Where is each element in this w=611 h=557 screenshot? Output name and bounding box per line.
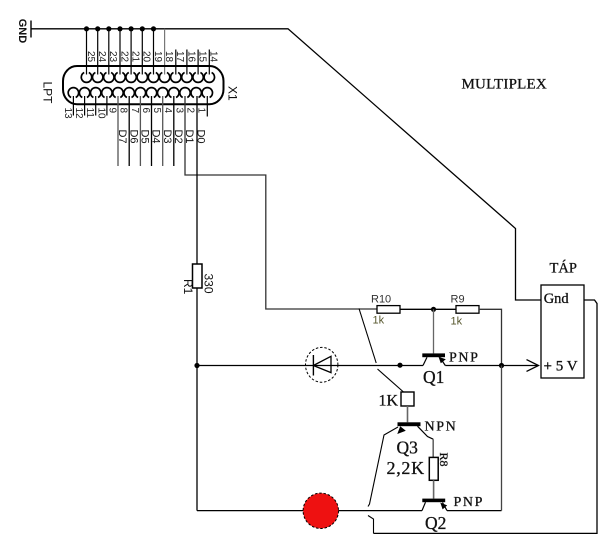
pin cup 3 [180, 88, 190, 98]
resistor R8 [429, 457, 438, 480]
wire red LED row left [197, 510, 422, 512]
svg-text:21: 21 [130, 51, 141, 63]
svg-text:20: 20 [141, 51, 152, 63]
connector X1 body (DB25 LPT) [63, 66, 224, 104]
Q3 emitter wire upper [368, 427, 398, 507]
svg-text:D7: D7 [116, 130, 128, 144]
pin cup 12 [79, 88, 89, 98]
pin cup 9 [113, 88, 123, 98]
Q2 emitter arrow [440, 503, 447, 510]
power supply TAP box [541, 285, 584, 378]
resistor R1 [193, 264, 203, 288]
svg-text:2: 2 [185, 108, 196, 114]
wire pin 22 to GND bus [119, 29, 121, 75]
svg-text:1k: 1k [451, 316, 463, 328]
svg-text:R9: R9 [451, 294, 465, 306]
svg-text:14: 14 [208, 51, 219, 63]
junction dot left of LED [194, 363, 199, 368]
svg-text:R10: R10 [371, 294, 391, 306]
svg-text:3: 3 [173, 108, 184, 114]
wire R1 to bottom left [196, 288, 198, 511]
svg-text:12: 12 [73, 108, 84, 120]
wire pin 24 to GND bus [97, 29, 99, 75]
pin cup 7 [135, 88, 145, 98]
svg-text:GND: GND [16, 19, 28, 44]
Q1 collector [423, 357, 427, 365]
svg-text:PNP: PNP [454, 495, 484, 510]
Q1 emitter arrow [439, 357, 446, 363]
svg-text:X1: X1 [226, 86, 240, 101]
wire Q3 collector to R8 [432, 439, 434, 457]
wire pin 25 to GND bus [86, 29, 88, 75]
pin 13 stub [72, 96, 74, 116]
svg-text:R1: R1 [181, 279, 195, 295]
pin 16 stub [186, 50, 188, 75]
svg-text:17: 17 [174, 51, 185, 63]
resistor R10 [377, 306, 400, 314]
pin cup 14 [204, 73, 214, 83]
wire +5V rail to Q2 emitter [501, 366, 503, 511]
svg-text:D2: D2 [172, 130, 184, 144]
svg-text:9: 9 [106, 108, 117, 114]
resistor R9 [456, 306, 479, 314]
wire D5 (pin 7) [139, 96, 141, 166]
wire D1 pin3 to R10 [185, 96, 377, 309]
pin 10 stub [106, 96, 108, 116]
junction dot +5V rail [499, 363, 504, 368]
pin cup 6 [146, 88, 156, 98]
svg-text:LPT: LPT [41, 82, 55, 105]
junction dot right of LED [397, 363, 402, 368]
svg-text:23: 23 [107, 51, 118, 63]
wire pin 21 to GND bus [130, 29, 132, 75]
svg-text:PNP: PNP [449, 351, 479, 366]
wire D7 (pin 9) [117, 96, 119, 166]
pin cup 1 [202, 88, 212, 98]
wire D1 net to 1K (upper) [359, 309, 376, 364]
wire D3 (pin 5) [162, 96, 164, 166]
Q2 collector [422, 502, 426, 510]
svg-text:330: 330 [202, 274, 216, 294]
junction dot pin 20 [140, 26, 145, 31]
wire D0 pin2 to R1 [196, 96, 198, 264]
junction dot pin 19 [151, 26, 156, 31]
svg-text:Q2: Q2 [425, 513, 446, 533]
svg-text:19: 19 [152, 51, 163, 63]
pin cup 18 [159, 73, 169, 83]
wire pin 19 to GND bus [153, 29, 155, 75]
wire 1K to Q3 base [407, 406, 409, 422]
pin cup 24 [93, 73, 103, 83]
pin 11 stub [95, 96, 97, 116]
svg-text:R8: R8 [437, 453, 451, 467]
pin cup 17 [171, 73, 181, 83]
svg-text:11: 11 [84, 108, 95, 119]
svg-text:8: 8 [118, 108, 129, 114]
pin 15 stub [197, 50, 199, 75]
pin cup 13 [68, 88, 78, 98]
pin cup 15 [193, 73, 203, 83]
wire Q1 base [433, 309, 435, 353]
Q1 emitter [440, 358, 445, 366]
svg-text:5: 5 [151, 108, 162, 114]
wire LED row [197, 365, 423, 367]
Q3 collector [418, 426, 434, 439]
svg-text:Q3: Q3 [397, 438, 419, 458]
Q3 emitter wire lower (to bottom bus) [368, 516, 374, 534]
pin cup 19 [148, 73, 158, 83]
svg-text:22: 22 [118, 51, 129, 63]
wire R9 to +5V rail [479, 309, 502, 365]
pin cup 2 [191, 88, 201, 98]
diode D (circle) [306, 347, 338, 382]
svg-text:2,2K: 2,2K [387, 458, 425, 478]
svg-text:6: 6 [140, 108, 151, 114]
svg-text:+ 5 V: + 5 V [544, 358, 578, 374]
transistor Q3 bar [398, 422, 421, 426]
svg-text:Q1: Q1 [423, 367, 444, 387]
wire D4 (pin 6) [151, 96, 153, 166]
svg-text:13: 13 [62, 108, 73, 120]
svg-text:D3: D3 [161, 130, 173, 144]
junction dot pin 22 [117, 26, 122, 31]
svg-text:NPN: NPN [425, 420, 458, 435]
wire R10 to R9 [400, 308, 456, 310]
svg-text:D5: D5 [139, 130, 151, 144]
pin cup 16 [182, 73, 192, 83]
wire D6 (pin 8) [128, 96, 130, 166]
pin 17 stub [175, 50, 177, 75]
diode triangle [313, 356, 331, 372]
svg-text:D6: D6 [127, 130, 139, 144]
pin cup 23 [104, 73, 114, 83]
svg-text:MULTIPLEX: MULTIPLEX [462, 77, 547, 93]
svg-text:18: 18 [163, 51, 174, 63]
svg-text:TÁP: TÁP [550, 260, 577, 277]
wire TAP Gnd to bottom bus [374, 300, 598, 533]
Q2 emitter [443, 503, 448, 511]
svg-text:1K: 1K [379, 392, 399, 409]
svg-text:D4: D4 [150, 130, 162, 144]
junction dot base Q1 [431, 307, 436, 312]
wire pin 20 to GND bus [141, 29, 143, 75]
wire pin 18 to GND bus [164, 29, 166, 75]
svg-text:24: 24 [96, 51, 107, 63]
Q3 emitter arrow [397, 426, 406, 434]
pin 1 stub [206, 96, 208, 117]
svg-text:15: 15 [197, 51, 208, 63]
transistor Q1 bar [422, 353, 445, 357]
junction dot pin 25 [84, 26, 89, 31]
pin cup 25 [81, 73, 91, 83]
wire pin 23 to GND bus [108, 29, 110, 75]
pin 14 stub [208, 50, 210, 75]
svg-text:7: 7 [129, 108, 140, 114]
pin cup 10 [102, 88, 112, 98]
pin cup 22 [115, 73, 125, 83]
svg-text:25: 25 [85, 51, 96, 63]
wire Q1 emitter to +5V [445, 365, 537, 367]
svg-text:10: 10 [95, 108, 106, 120]
svg-text:4: 4 [162, 108, 173, 114]
svg-text:Gnd: Gnd [544, 291, 570, 307]
pin cup 20 [137, 73, 147, 83]
wire R8 to Q2 base [433, 480, 435, 498]
wire GND bus to TAP Gnd [31, 29, 541, 300]
junction dot pin 23 [106, 26, 111, 31]
svg-text:1k: 1k [373, 315, 385, 327]
pin cup 21 [126, 73, 136, 83]
pin cup 8 [124, 88, 134, 98]
junction dot pin 21 [129, 26, 134, 31]
arrow into +5V [527, 360, 539, 372]
wire red LED row right [447, 510, 502, 512]
svg-text:D0: D0 [194, 130, 206, 144]
pin cup 5 [158, 88, 168, 98]
transistor Q2 bar [422, 499, 445, 503]
pin cup 11 [91, 88, 101, 98]
pin 12 stub [84, 96, 86, 116]
diode cathode bar [312, 355, 314, 376]
resistor 1K [401, 392, 414, 406]
pin cup 4 [169, 88, 179, 98]
GND terminal bar [30, 21, 32, 38]
svg-text:16: 16 [185, 51, 196, 63]
junction dot pin 24 [95, 26, 100, 31]
wire D2 (pin 4) [173, 96, 175, 166]
wire D1 net to 1K (lower) [378, 369, 404, 392]
red LED indicator [303, 493, 338, 528]
